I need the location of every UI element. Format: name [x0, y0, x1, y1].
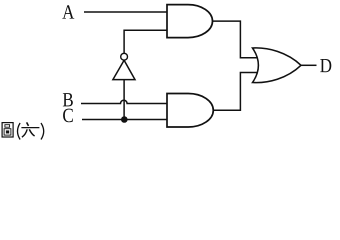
caption 圖(六) drawn as vector paths	[2, 122, 44, 139]
OR gate U4	[253, 48, 302, 83]
node D (output label)	[320, 59, 331, 72]
caption glyph (	[18, 123, 21, 140]
wire B to AND2 input with hop over vertical	[81, 100, 167, 103]
caption glyph 圖 middle box	[4, 129, 11, 135]
AND gate U3 (bottom)	[167, 94, 213, 128]
caption glyph 圖 outer box	[2, 123, 13, 137]
caption glyph 六 left leg	[22, 129, 27, 137]
caption glyph 六 dot	[27, 122, 29, 126]
node C (input label)	[63, 109, 73, 123]
wire inverter output up and right to AND1 second input	[124, 30, 167, 53]
caption glyph 圖 inner mark	[6, 131, 9, 134]
inverter U1 triangle (pointing up)	[113, 60, 135, 79]
inverter U1 output bubble	[121, 53, 128, 60]
wire AND2 output to OR bottom input	[213, 73, 257, 111]
node B (input label)	[63, 93, 73, 106]
junction dot on C line	[121, 116, 128, 123]
caption glyph 六 horizontal bar	[21, 127, 39, 129]
wire OR output to D	[301, 64, 317, 66]
wire A to AND1 input	[84, 11, 167, 13]
node A (input label)	[62, 5, 74, 18]
caption glyph 圖 top small box	[5, 125, 10, 128]
caption glyph )	[41, 123, 44, 140]
AND gate U2 (top)	[167, 5, 213, 38]
wire AND1 output to OR top input	[213, 21, 258, 58]
wire C branch up to inverter input	[123, 80, 125, 120]
caption glyph 六 right leg	[29, 129, 34, 136]
wire C to AND2 input	[82, 119, 167, 121]
